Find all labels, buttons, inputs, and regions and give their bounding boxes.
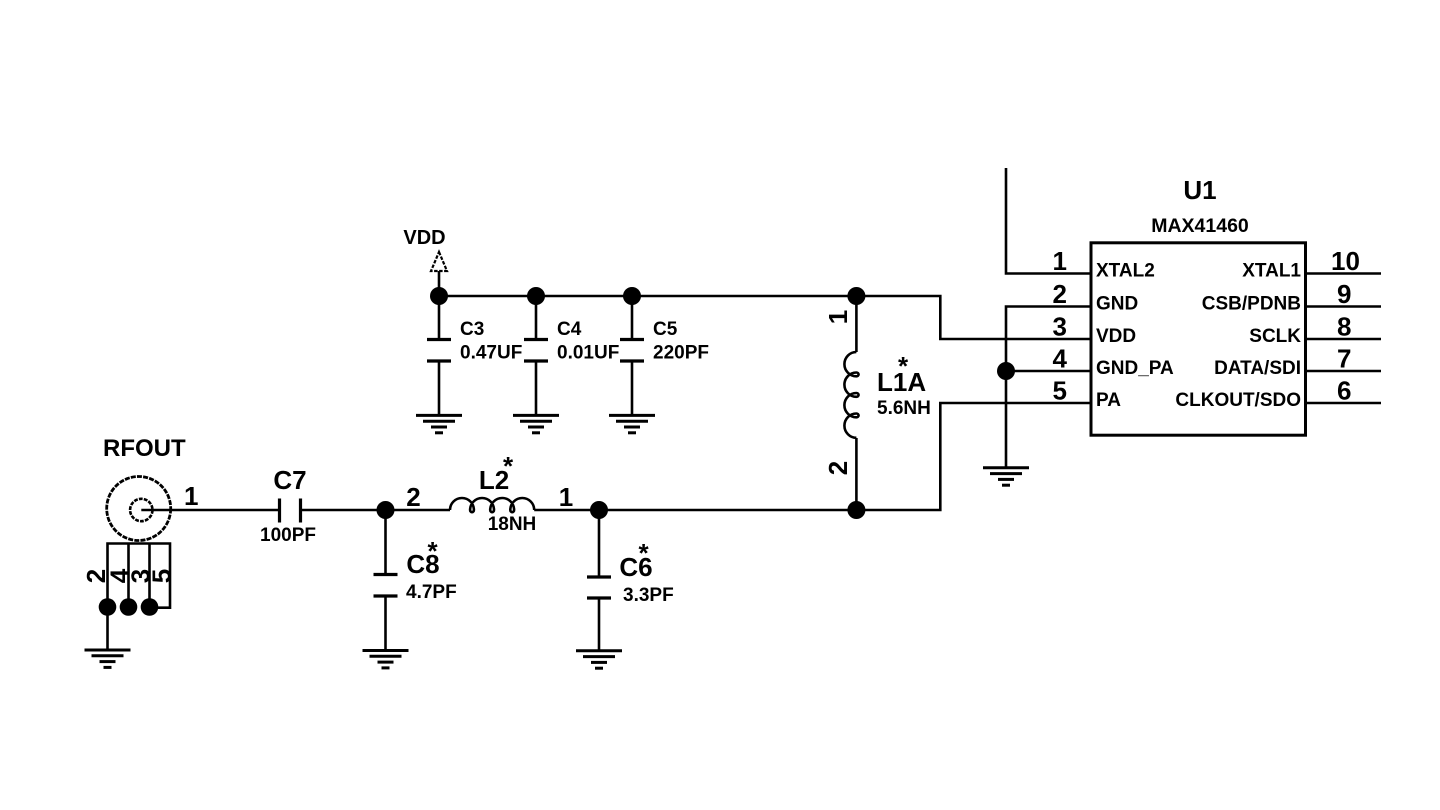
svg-text:GND_PA: GND_PA bbox=[1096, 358, 1174, 379]
capacitor C5 plates bbox=[620, 340, 644, 362]
capacitor C3 top lead bbox=[438, 296, 441, 338]
capacitor C8 top lead bbox=[384, 510, 387, 574]
svg-text:5: 5 bbox=[147, 569, 177, 583]
wire VDD to rail bbox=[438, 271, 441, 296]
svg-text:18NH: 18NH bbox=[488, 514, 537, 535]
wire node2 to L2 bbox=[386, 509, 451, 512]
capacitor C3 plates bbox=[427, 340, 451, 362]
junction dot L1A top bbox=[847, 287, 865, 305]
pin 2 label L1A rotated bbox=[823, 461, 853, 475]
junction dot node 2 bbox=[377, 501, 395, 519]
power symbol VDD triangle bbox=[431, 252, 447, 271]
svg-text:100PF: 100PF bbox=[260, 525, 316, 546]
ground at RFOUT shield bbox=[85, 650, 131, 667]
wire RFOUT pin1 to C7 bbox=[141, 509, 279, 512]
capacitor C8 plates bbox=[374, 575, 398, 597]
junction dot rail at C5 bbox=[623, 287, 641, 305]
svg-text:L2: L2 bbox=[479, 465, 509, 495]
wire C7 to node 2 bbox=[301, 509, 386, 512]
svg-text:VDD: VDD bbox=[403, 227, 445, 249]
svg-text:2: 2 bbox=[406, 482, 420, 512]
inductor L1A bottom lead bbox=[855, 438, 858, 510]
junction dot node 1 bbox=[590, 501, 608, 519]
RFOUT shield pin wire 4 bbox=[127, 544, 130, 608]
capacitor C5 bottom lead bbox=[631, 361, 634, 414]
junction dot shield b bbox=[120, 598, 138, 616]
svg-text:10: 10 bbox=[1331, 246, 1360, 276]
capacitor C4 plates bbox=[524, 340, 548, 362]
RFOUT shield bracket top wire bbox=[108, 544, 171, 608]
capacitor C7 plates bbox=[280, 499, 301, 523]
wire GND pin to ground bbox=[1006, 307, 1091, 468]
capacitor C6 plates bbox=[587, 577, 611, 598]
svg-text:MAX41460: MAX41460 bbox=[1151, 215, 1249, 237]
svg-text:C7: C7 bbox=[273, 465, 306, 495]
IC U1 box bbox=[1091, 243, 1306, 435]
svg-text:6: 6 bbox=[1337, 376, 1351, 406]
svg-text:L1A: L1A bbox=[877, 367, 926, 397]
wire L2 to node 1 bbox=[534, 509, 599, 512]
svg-text:1: 1 bbox=[559, 482, 573, 512]
wire GND_PA junction bbox=[1006, 370, 1091, 373]
ground at C3 bbox=[416, 415, 462, 432]
svg-text:1: 1 bbox=[184, 481, 198, 511]
svg-text:8: 8 bbox=[1337, 312, 1351, 342]
connector J1 RFOUT outer shell bbox=[107, 477, 171, 541]
ground at C6 bbox=[576, 651, 622, 668]
inductor L2 bbox=[450, 498, 534, 512]
ground at C8 bbox=[363, 651, 409, 668]
capacitor C6 bottom lead bbox=[598, 598, 601, 650]
svg-text:4.7PF: 4.7PF bbox=[406, 582, 457, 603]
svg-text:C6: C6 bbox=[619, 552, 652, 582]
wire pin 10 XTAL1 bbox=[1306, 272, 1382, 275]
svg-text:DATA/SDI: DATA/SDI bbox=[1214, 358, 1301, 379]
svg-text:1: 1 bbox=[1053, 246, 1067, 276]
inductor L1A coil bbox=[844, 352, 858, 438]
svg-text:2: 2 bbox=[823, 461, 853, 475]
svg-text:0.01UF: 0.01UF bbox=[557, 343, 619, 364]
junction dot shield c bbox=[141, 598, 159, 616]
svg-text:220PF: 220PF bbox=[653, 343, 709, 364]
svg-text:5.6NH: 5.6NH bbox=[877, 398, 931, 419]
svg-text:1: 1 bbox=[823, 310, 853, 324]
svg-text:VDD: VDD bbox=[1096, 326, 1136, 347]
svg-text:7: 7 bbox=[1337, 344, 1351, 374]
svg-text:GND: GND bbox=[1096, 294, 1138, 315]
ground at U1 bbox=[983, 468, 1029, 485]
ground at C5 bbox=[609, 415, 655, 432]
junction dot GND_PA bbox=[997, 362, 1015, 380]
svg-text:0.47UF: 0.47UF bbox=[460, 343, 522, 364]
RFOUT shield pin wire 3 bbox=[148, 544, 151, 608]
svg-text:3.3PF: 3.3PF bbox=[623, 585, 674, 606]
svg-text:CSB/PDNB: CSB/PDNB bbox=[1202, 294, 1301, 315]
capacitor C4 bottom lead bbox=[535, 361, 538, 414]
capacitor C8 bottom lead bbox=[384, 596, 387, 650]
svg-text:C3: C3 bbox=[460, 319, 484, 340]
svg-text:PA: PA bbox=[1096, 390, 1121, 411]
pin 1 label L1A rotated bbox=[823, 310, 853, 324]
svg-text:U1: U1 bbox=[1183, 175, 1216, 205]
capacitor C5 top lead bbox=[631, 296, 634, 338]
ground at C4 bbox=[513, 415, 559, 432]
wire pin 7 DATA/SDI bbox=[1306, 370, 1382, 373]
svg-text:C4: C4 bbox=[557, 319, 582, 340]
capacitor C4 top lead bbox=[535, 296, 538, 338]
junction dot L1A bottom bbox=[847, 501, 865, 519]
connector J1 RFOUT center pin bbox=[130, 499, 152, 521]
capacitor C6 top lead bbox=[598, 510, 601, 576]
junction dot rail at C4 bbox=[527, 287, 545, 305]
svg-text:3: 3 bbox=[1053, 312, 1067, 342]
pin 3 label rotated bbox=[126, 569, 156, 583]
svg-text:XTAL2: XTAL2 bbox=[1096, 261, 1155, 282]
svg-text:XTAL1: XTAL1 bbox=[1242, 261, 1301, 282]
svg-text:9: 9 bbox=[1337, 279, 1351, 309]
svg-text:5: 5 bbox=[1053, 376, 1067, 406]
svg-text:SCLK: SCLK bbox=[1249, 326, 1301, 347]
svg-text:CLKOUT/SDO: CLKOUT/SDO bbox=[1175, 390, 1301, 411]
svg-text:C5: C5 bbox=[653, 319, 678, 340]
pin 5 label rotated bbox=[147, 569, 177, 583]
junction dot shield a bbox=[99, 598, 117, 616]
capacitor C3 bottom lead bbox=[438, 361, 441, 414]
wire pin 6 CLKOUT/SDO bbox=[1306, 402, 1382, 405]
svg-text:C8: C8 bbox=[406, 549, 439, 579]
junction dot VDD rail at C3 bbox=[430, 287, 448, 305]
pin 4 label rotated bbox=[105, 568, 135, 583]
pin 2 label rotated bbox=[81, 569, 111, 583]
wire shield to ground bbox=[106, 607, 109, 649]
wire XTAL2 stub from top bbox=[1006, 168, 1091, 274]
wire pin 8 SCLK bbox=[1306, 338, 1382, 341]
svg-text:RFOUT: RFOUT bbox=[103, 435, 186, 462]
wire top rail to VDD pin corner bbox=[439, 296, 1091, 339]
inductor L1A top lead bbox=[855, 296, 858, 352]
wire pin 9 CSB/PDNB bbox=[1306, 305, 1382, 308]
svg-text:4: 4 bbox=[1053, 344, 1068, 374]
wire node1 to L1A bottom and PA corner bbox=[599, 403, 1091, 510]
svg-text:2: 2 bbox=[1053, 279, 1067, 309]
